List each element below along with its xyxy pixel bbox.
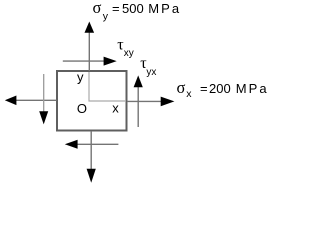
svg-text:xy: xy: [124, 48, 134, 59]
element square: [57, 71, 127, 131]
svg-text:O: O: [77, 101, 87, 116]
label tau-xy: [117, 37, 134, 60]
svg-text:=: =: [200, 81, 208, 96]
svg-text:x: x: [112, 101, 119, 116]
svg-text:MPa: MPa: [236, 81, 269, 96]
arrow sigma-y bottom (down): [87, 131, 96, 183]
label sigma-y = 500 MPa: [93, 0, 182, 23]
arrow sigma-x left: [5, 96, 57, 106]
svg-text:200: 200: [209, 81, 231, 96]
arrow sigma-y top (up): [85, 22, 95, 72]
svg-text:=: =: [112, 1, 120, 16]
svg-text:yx: yx: [146, 67, 156, 78]
svg-text:y: y: [103, 11, 109, 23]
svg-text:y: y: [77, 70, 84, 85]
axes x-y through O: [89, 72, 126, 101]
arrow tau bottom (left): [65, 140, 119, 149]
label sigma-x = 200 MPa: [177, 78, 269, 100]
arrow tau left (down): [39, 74, 48, 124]
label tau-yx: [140, 55, 156, 78]
arrow tau-xy top (right): [63, 57, 117, 66]
svg-text:MPa: MPa: [148, 1, 181, 16]
svg-text:500: 500: [122, 1, 144, 16]
arrow tau-yx right (up): [134, 75, 143, 127]
svg-text:σ: σ: [177, 78, 186, 97]
svg-text:x: x: [186, 88, 192, 100]
arrow sigma-x right: [127, 97, 174, 107]
svg-text:σ: σ: [93, 0, 102, 17]
